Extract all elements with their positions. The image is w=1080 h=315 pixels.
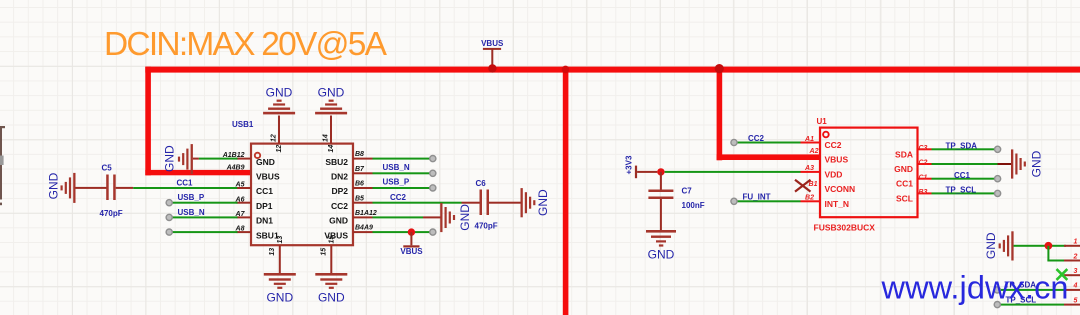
wire VBUS bus vertical left drop (145, 67, 151, 176)
wire pin A8 (172, 231, 238, 233)
net label USB_N (left) (178, 208, 205, 217)
svg-text:B7: B7 (355, 166, 365, 173)
wire USB_P to pin A6 (172, 202, 238, 204)
pin-1 marker circle USB1 (255, 153, 260, 158)
svg-text:B2: B2 (805, 195, 814, 202)
svg-text:FU_INT: FU_INT (743, 193, 771, 202)
wire junction to C7 (660, 172, 662, 190)
ground symbol bottom-right connector (984, 231, 1014, 260)
svg-text:2: 2 (1073, 253, 1078, 260)
net label FU_INT (743, 193, 771, 202)
no-connect cross at pin B1 (795, 180, 811, 192)
connector pin 2 stub (1064, 253, 1080, 261)
svg-text:470pF: 470pF (475, 222, 498, 231)
wire ground to connector pin 1 (1014, 245, 1066, 247)
svg-text:SDA: SDA (895, 149, 913, 159)
no-connect dot U1 A1 (731, 139, 737, 145)
svg-text:C5: C5 (102, 164, 113, 173)
svg-text:B1A12: B1A12 (355, 210, 377, 217)
svg-text:SBU2: SBU2 (325, 157, 348, 167)
svg-text:B1: B1 (809, 181, 818, 188)
pin A1B12 stub (222, 152, 275, 167)
svg-text:TP_SCL: TP_SCL (946, 186, 977, 195)
svg-text:VCONN: VCONN (825, 184, 856, 194)
svg-text:GND: GND (648, 248, 675, 262)
no-connect dot pin B8 (430, 156, 436, 162)
pin B8 stub (325, 151, 372, 167)
wire TP_SCL to connector pin 5 (1001, 304, 1065, 306)
junction dot at U1 branch (715, 64, 724, 73)
svg-text:A4B9: A4B9 (226, 164, 245, 171)
wire CC2 to U1 pin A1 (737, 142, 801, 144)
svg-text:CC2: CC2 (748, 134, 765, 143)
wire VBUS branch vertical to U1 (717, 67, 723, 161)
connector pin 4 stub (1064, 283, 1080, 291)
net label USB_P (left) (178, 193, 205, 202)
wire CC2 from pin B5 (373, 202, 462, 204)
wire pin B7 (373, 172, 431, 174)
pin A6 stub (235, 196, 273, 211)
wire GND to C5 (76, 187, 108, 189)
pin 15 bottom stub (321, 236, 336, 274)
svg-text:14: 14 (328, 145, 335, 153)
svg-text:C1: C1 (919, 174, 928, 181)
svg-text:GND: GND (266, 291, 293, 305)
no-connect dot TP_SCL connector (994, 302, 1000, 308)
wire junction down to pin 2 (1047, 246, 1066, 262)
wire VBUS thick to U1 pin A2 (717, 154, 821, 160)
svg-text:15: 15 (329, 236, 336, 244)
svg-text:GND: GND (318, 86, 345, 100)
pin A7 stub (235, 211, 274, 226)
ground symbol at pin B1A12 (440, 203, 472, 232)
pin A3 stub (801, 165, 843, 179)
ground symbol top-left of USB1 (263, 86, 295, 115)
pin-1 marker circle U1 (823, 132, 829, 138)
svg-text:B3: B3 (919, 189, 928, 196)
pin 13 bottom stub (269, 236, 284, 274)
svg-text:USB_N: USB_N (178, 208, 205, 217)
svg-text:GND: GND (458, 204, 472, 231)
wire +3V3 to U1 VDD (665, 171, 801, 173)
pin B1 stub (809, 181, 856, 194)
title text DCIN:MAX 20V@5A (104, 26, 388, 63)
svg-text:USB1: USB1 (232, 120, 254, 129)
svg-text:GND: GND (318, 291, 345, 305)
svg-text:INT_N: INT_N (825, 199, 850, 209)
watermark www.jdwx.cn (881, 270, 1069, 306)
pin B5 stub (331, 195, 373, 211)
svg-text:12: 12 (271, 134, 278, 142)
ground symbol top-right of USB1 (315, 86, 347, 115)
svg-text:B8: B8 (355, 151, 364, 158)
svg-text:C7: C7 (682, 186, 693, 195)
svg-text:C2: C2 (919, 160, 928, 167)
wire CC2 to C6 (462, 202, 481, 204)
junction dot at VBUS label (488, 64, 496, 72)
svg-text:4: 4 (1073, 283, 1078, 290)
svg-text:GND: GND (1030, 150, 1044, 177)
no-connect dot pin A6 (166, 200, 172, 206)
designator USB1 (232, 120, 254, 129)
svg-text:CC2: CC2 (825, 140, 842, 150)
no-connect dot pin B7 (430, 170, 436, 176)
svg-text:DCIN:MAX 20V@5A: DCIN:MAX 20V@5A (104, 26, 388, 63)
svg-text:USB_P: USB_P (383, 178, 410, 187)
svg-text:A1: A1 (804, 136, 814, 143)
junction dot at middle drop (562, 66, 570, 74)
svg-text:GND: GND (984, 232, 998, 259)
svg-text:GND: GND (329, 216, 348, 226)
svg-text:14: 14 (323, 134, 330, 142)
svg-text:CC1: CC1 (896, 179, 913, 189)
no-connect dot pin A8 (166, 229, 172, 235)
svg-text:13: 13 (277, 236, 284, 244)
net label VBUS (top) (481, 39, 504, 48)
svg-text:GND: GND (266, 86, 293, 100)
ground symbol left of C5 (47, 172, 76, 203)
capacitor C6 (480, 190, 490, 216)
wire USB_N to pin A7 (172, 216, 238, 218)
wire FU_INT to U1 pin B2 (737, 200, 801, 202)
pin B1A12 stub (329, 210, 377, 226)
no-connect dot pin A7 (166, 214, 172, 220)
no-connect cross connector pin 3 (1057, 269, 1068, 280)
svg-text:CC1: CC1 (954, 171, 971, 180)
wire TP_SDA from pin C3 (932, 148, 995, 150)
svg-text:CC2: CC2 (331, 201, 348, 211)
wire GND to pin A1B12 (193, 158, 238, 160)
junction dot +3V3 (657, 168, 664, 175)
svg-text:SCL: SCL (896, 193, 913, 203)
capacitor C5 (106, 175, 116, 201)
svg-text:B6: B6 (355, 181, 364, 188)
wire TP_SDA to connector pin 4 (1001, 289, 1065, 291)
net label CC1 (left) (177, 178, 194, 187)
svg-text:100nF: 100nF (682, 201, 705, 210)
wire VBUS thick to pin A4B9 (145, 170, 251, 175)
connector pin 1 stub (1064, 239, 1080, 247)
wire TP_SCL from pin B3 (932, 192, 995, 194)
pin 14 top stub (323, 116, 336, 153)
svg-text:SBU1: SBU1 (256, 230, 279, 240)
svg-text:GND: GND (894, 164, 913, 174)
svg-text:VBUS: VBUS (825, 155, 849, 165)
net label USB_N (right) (383, 163, 410, 172)
svg-text:+3V3: +3V3 (625, 155, 634, 174)
ground symbol bottom-right of USB1 (315, 273, 347, 305)
part number FUSB302BUCX (814, 223, 876, 233)
svg-text:A2: A2 (809, 148, 819, 155)
svg-text:B4A9: B4A9 (355, 225, 373, 232)
wire pin B8 (373, 158, 431, 160)
pin A5 stub (235, 182, 274, 197)
svg-text:DP1: DP1 (256, 201, 273, 211)
svg-text:VBUS: VBUS (256, 172, 280, 182)
svg-text:A3: A3 (804, 165, 814, 172)
connector pin 3 stub (1064, 268, 1080, 276)
wire pin B4A9 (373, 231, 430, 233)
svg-text:13: 13 (269, 248, 276, 256)
ground symbol right of U1 (1011, 149, 1044, 178)
svg-text:15: 15 (321, 248, 328, 256)
wire C6 to ground (489, 202, 521, 204)
wire +3V3 to junction (637, 171, 657, 173)
pin B3 stub (896, 189, 932, 203)
svg-text:3: 3 (1074, 268, 1078, 275)
ground symbol bottom-left of USB1 (264, 273, 296, 305)
power port +3V3 (625, 155, 638, 178)
svg-text:VDD: VDD (825, 169, 843, 179)
label C5 (102, 164, 113, 173)
pin A4B9 stub (226, 164, 280, 181)
pin A2 stub (809, 148, 849, 165)
svg-text:U1: U1 (817, 117, 828, 126)
net label CC2 (right) (390, 193, 407, 202)
net label TP_SCL (connector) (1006, 295, 1037, 304)
net label USB_P (right) (383, 178, 410, 187)
power port VBUS below B4A9 (400, 232, 423, 256)
ground symbol at pin A1B12 (163, 144, 193, 174)
svg-text:DP2: DP2 (331, 186, 348, 196)
clipped component left edge (0, 126, 5, 205)
pin 12 top stub (271, 116, 284, 153)
svg-text:1: 1 (1074, 239, 1078, 246)
no-connect dot U1 B2 (731, 198, 737, 204)
label C7 (682, 186, 693, 195)
net label TP_SCL (U1) (946, 186, 977, 195)
no-connect dot pin B4A9 (430, 229, 436, 235)
no-connect dot pin B6 (430, 185, 436, 191)
pin A8 stub (235, 226, 279, 241)
net label TP_SDA (U1) (946, 142, 978, 151)
pin C1 stub (896, 174, 932, 188)
svg-text:5: 5 (1074, 297, 1078, 304)
wire CC1 from pin C1 (932, 178, 995, 180)
svg-text:TP_SDA: TP_SDA (946, 142, 978, 151)
value 470pF (C5) (100, 209, 123, 218)
label C6 (476, 179, 487, 188)
pin A1 stub (801, 136, 842, 150)
pin B7 stub (331, 166, 373, 182)
svg-text:CC1: CC1 (177, 178, 194, 187)
wire C5 lead right (116, 187, 134, 189)
designator U1 (817, 117, 828, 126)
ic U1 body (820, 128, 918, 218)
pin C2 stub (894, 160, 931, 174)
svg-text:USB_P: USB_P (178, 193, 205, 202)
svg-text:GND: GND (256, 157, 275, 167)
pin C3 stub (895, 145, 931, 159)
svg-text:B5: B5 (355, 195, 364, 202)
junction VBUS label stub (483, 48, 501, 65)
ground symbol below C7 (646, 230, 676, 262)
ground symbol right of C6 (521, 188, 551, 217)
net label TP_SDA (connector) (1005, 281, 1037, 290)
wire pin B1A12 to ground (373, 216, 441, 218)
net label CC1 (U1) (954, 171, 971, 180)
pin B2 stub (801, 195, 850, 209)
no-connect dot TP_SDA connector (994, 287, 1000, 293)
svg-text:www.jdwx.cn: www.jdwx.cn (881, 270, 1069, 306)
svg-text:C6: C6 (476, 179, 487, 188)
svg-text:C3: C3 (919, 145, 928, 152)
svg-text:GND: GND (536, 189, 550, 216)
svg-text:FUSB302BUCX: FUSB302BUCX (814, 223, 876, 233)
value 100nF (C7) (682, 201, 705, 210)
wire C7 to ground (660, 199, 662, 230)
pin B4A9 stub (324, 225, 373, 241)
junction dot VBUS at pin B4A9 (408, 228, 415, 235)
wire U1 GND pin C2 to ground (932, 163, 1012, 165)
junction dot connector pin 1 (1045, 242, 1053, 250)
no-connect dot TP_SDA (995, 146, 1001, 152)
svg-text:USB_N: USB_N (383, 163, 410, 172)
svg-text:12: 12 (276, 145, 283, 153)
svg-text:VBUS: VBUS (481, 39, 504, 48)
capacitor C7 (648, 190, 673, 200)
svg-text:CC2: CC2 (390, 193, 407, 202)
connector pin 5 stub (1064, 297, 1080, 305)
wire VBUS bus vertical middle drop (563, 67, 569, 315)
value 470pF (C6) (475, 222, 498, 231)
wire VBUS bus horizontal top (145, 67, 1080, 73)
pin B6 stub (331, 181, 372, 197)
svg-text:DN1: DN1 (256, 216, 273, 226)
svg-text:DN2: DN2 (331, 172, 348, 182)
svg-text:VBUS: VBUS (400, 247, 423, 256)
svg-text:470pF: 470pF (100, 209, 123, 218)
svg-text:CC1: CC1 (256, 186, 273, 196)
net label CC2 (U1) (748, 134, 765, 143)
svg-text:GND: GND (47, 172, 61, 199)
wire pin B6 (373, 187, 431, 189)
connector USB1 body (251, 144, 353, 246)
no-connect dot CC1 (995, 176, 1001, 182)
svg-text:GND: GND (163, 145, 177, 172)
wire CC1 to pin A5 (133, 187, 237, 189)
no-connect dot TP_SCL (995, 190, 1001, 196)
